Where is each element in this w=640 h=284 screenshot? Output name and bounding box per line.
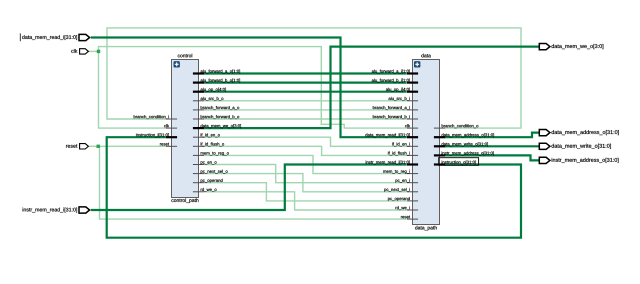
wire rd_we net (U1 to U2) [204,192,407,210]
wire clk net trunk (port to junction) [88,50,98,52]
U1 input pin reset [160,143,177,147]
U2 input pin mem_to_reg_i [383,170,418,174]
U1 output pin alu_forward_a_o[1:0] [193,70,240,74]
wire alu_src_b net (U1 to U2) [204,100,407,102]
U1 input pin instruction_i[31:0] [136,133,177,137]
output port data_mem_address_o[31:0] [539,130,618,136]
U2 input pin branch_forward_a_i [373,106,418,110]
output port data_mem_write_o[31:0] [539,143,611,149]
caret mark before data_mem_read_i label [19,33,21,41]
U1 output pin alu_src_b_o [193,97,223,101]
U2 input pin instr_mem_read_i[31:0] [366,161,418,165]
wire data_mem_read_i net (port to U2) [91,38,407,138]
wire data_mem_address_o net (U2 to output port) [445,133,539,138]
wire pc_next_sel net (U1 to U2) [204,174,407,192]
wire instruction_o feedback net (U2 to U1 instruction_i) [107,137,521,238]
wire alu_forward_a net (U1 to U2) [204,72,407,74]
U2 input pin alu_forward_b_i[1:0] [372,79,418,83]
U1 input pin clk [164,124,177,128]
wire pc_operand net (U1 to U2) [204,183,407,201]
wire if_id_en net (U1 to U2) [204,137,407,146]
U2 output pin instruction_o[31:0] [434,161,476,165]
U1 output pin data_mem_we_o[3:0] [193,124,241,128]
wire alu_op net (U1 to U2) [204,91,407,93]
wire branch_forward_a net (U1 to U2) [204,109,407,111]
wire reset net trunk (port to U1 reset) [89,145,166,147]
wire if_id_flush net (U1 to U2) [204,146,407,155]
junction clk [97,50,100,53]
label control_path (instance name) [171,198,198,203]
output port data_mem_we_o[3:0] [539,44,603,50]
input port clk [71,49,88,54]
U2 input pin pc_en_i [395,179,418,183]
wire clk branch to U2 clk [99,47,407,129]
expand icon U2 [414,61,420,67]
U2 input pin alu_src_b_i [389,97,419,101]
U2 output pin branch_condition_o [434,124,478,128]
wire pc_en net (U1 to U2) [204,165,407,183]
wire branch_condition_o feedback net (U2 to U1) [107,28,521,128]
input port reset [66,144,88,149]
wire reset branch to U2 reset [100,146,407,219]
wire alu_forward_b net (U1 to U2) [204,81,407,83]
junction reset [97,145,100,148]
U1 output pin alu_op_o[4:0] [193,88,226,92]
U1 output pin pc_operand [193,179,223,183]
U1 output pin pc_next_sel_o [193,170,228,174]
input port instr_mem_read_i[31:0] [23,207,90,213]
U2 output pin data_mem_address_o[31:0] [434,133,494,137]
label data_path (instance name) [415,226,437,231]
expand icon U1 [174,61,180,67]
U1 input pin branch_condition_i [134,115,177,119]
U1 output pin mem_to_reg_o [193,152,229,156]
U2 input pin alu_op_i[4:0] [386,88,418,92]
label data (instance type) [421,54,431,58]
wire mem_to_reg net (U1 to U2) [204,155,407,173]
U2 input pin reset [401,216,418,220]
U1 output pin if_id_flush_o [193,142,224,146]
input port data_mem_read_i[31:0] [22,34,89,40]
U2 input pin if_id_flush_i [388,151,418,155]
U2 input pin pc_next_sel_i [384,188,418,192]
wire data_mem_write_o net (U2 to output port) [445,145,539,147]
wire clk branch to U1 clk [99,51,166,128]
U2 input pin if_id_en_i [392,142,418,146]
module block U2 data_path [413,60,440,225]
U1 output pin branch_forward_a_o [193,106,239,110]
wire data_mem_we_o net (U1 to output port) [204,47,539,129]
wire instr_mem_address_o net (U2 to output port) [445,155,539,160]
module block U1 control_path [172,60,199,198]
output port instr_mem_address_o[31:0] [539,157,618,163]
U1 output pin pc_en_o [193,161,217,164]
U2 input pin clk [405,124,418,128]
U1 output pin rd_we_o [193,188,217,192]
U2 input pin rd_we_i [396,206,419,210]
U2 output pin data_mem_write_o[31:0] [434,142,488,146]
U2 input pin pc_operand [388,197,418,201]
U2 input pin alu_forward_a_i[1:0] [372,70,418,74]
U1 output pin branch_forward_b_o [193,115,239,119]
U2 input pin data_mem_read_i[31:0] [365,133,418,137]
wire instr_mem_read_i net (port to U2) [91,165,407,211]
wire branch_forward_b net (U1 to U2) [204,118,407,120]
selection box on U2 pin instruction_o[31:0] [439,158,479,166]
U1 output pin if_id_en_o [193,133,220,137]
U2 input pin branch_forward_b_i [373,115,418,119]
U2 output pin instr_mem_address_o[31:0] [434,151,494,155]
label control (instance type) [178,54,192,58]
U1 output pin alu_forward_b_o[1:0] [193,79,240,83]
